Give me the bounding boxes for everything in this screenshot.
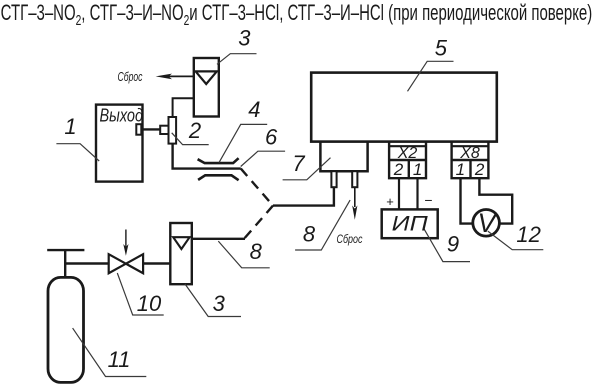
svg-text:7: 7 [292,151,305,176]
svg-text:1: 1 [413,160,422,179]
svg-text:Сброс: Сброс [118,70,144,84]
svg-text:2: 2 [188,118,201,143]
svg-text:СТГ–3–NO2, СТГ–3–И–NO2и СТГ–3–: СТГ–3–NO2, СТГ–3–И–NO2и СТГ–3–HCl, СТГ–3… [1,0,593,28]
svg-text:5: 5 [435,36,448,61]
svg-text:2: 2 [393,160,404,179]
svg-text:6: 6 [265,125,278,150]
svg-text:ИП: ИП [392,213,429,236]
svg-text:Выход: Выход [100,106,144,126]
svg-text:V: V [477,208,498,238]
svg-text:−: − [424,192,432,208]
svg-text:8: 8 [250,239,263,264]
svg-text:12: 12 [516,222,540,247]
svg-text:2: 2 [474,160,485,179]
svg-text:1: 1 [64,114,76,139]
svg-text:3: 3 [213,291,226,316]
svg-text:3: 3 [238,26,251,51]
svg-text:11: 11 [108,347,131,372]
svg-text:9: 9 [447,232,459,257]
svg-text:1: 1 [456,160,465,179]
svg-text:10: 10 [137,291,162,316]
svg-text:Сброс: Сброс [337,232,363,246]
svg-text:4: 4 [248,97,260,122]
svg-text:+: + [386,194,394,209]
svg-text:8: 8 [303,222,316,247]
